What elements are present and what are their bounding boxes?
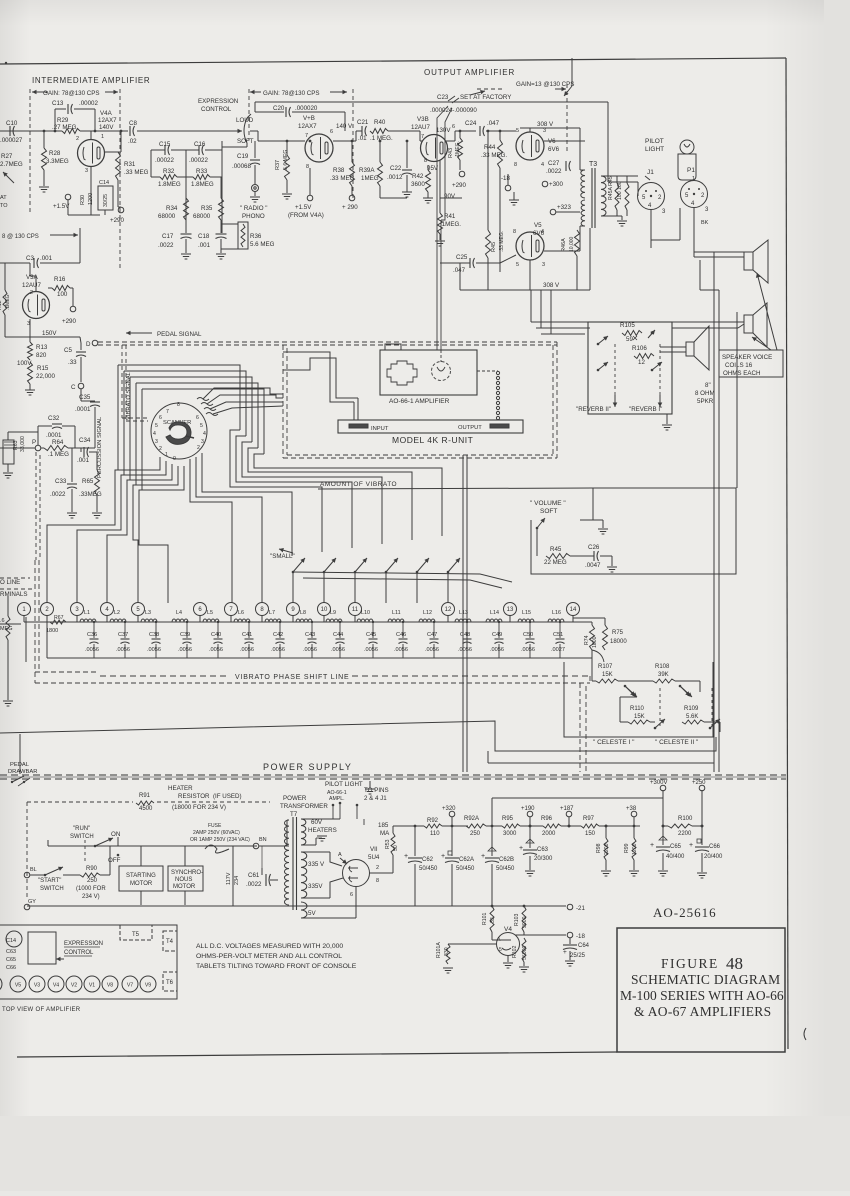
svg-text:12AU7: 12AU7 xyxy=(411,124,430,131)
svg-text:TOP VIEW OF AMPLIFIER: TOP VIEW OF AMPLIFIER xyxy=(2,1007,81,1013)
svg-text:GAIN: 78@130 CPS: GAIN: 78@130 CPS xyxy=(263,90,320,97)
wire xyxy=(592,617,605,619)
wire xyxy=(573,617,592,619)
svg-text:.001: .001 xyxy=(77,457,90,464)
ground xyxy=(39,186,49,188)
svg-text:SOFT: SOFT xyxy=(237,138,254,145)
svg-text:C63: C63 xyxy=(6,949,16,955)
svg-text:L8: L8 xyxy=(300,610,306,616)
svg-text:C17: C17 xyxy=(162,233,174,240)
svg-text:1800: 1800 xyxy=(46,628,58,634)
svg-text:8": 8" xyxy=(705,382,711,389)
svg-text:8: 8 xyxy=(424,158,427,164)
svg-text:1: 1 xyxy=(101,134,104,140)
capacitor C66 xyxy=(701,826,703,845)
svg-text:NOUS: NOUS xyxy=(175,877,192,883)
svg-text:6: 6 xyxy=(196,415,199,421)
svg-text:POWER: POWER xyxy=(283,795,307,802)
svg-text:.0056: .0056 xyxy=(425,647,439,653)
wire xyxy=(561,825,581,827)
wire to pedal drawbar xyxy=(19,734,21,774)
svg-text:1200: 1200 xyxy=(88,193,94,205)
svg-text:R44: R44 xyxy=(484,144,496,151)
svg-text:R27: R27 xyxy=(1,153,13,160)
svg-text:C23: C23 xyxy=(437,94,449,101)
svg-text:(IF USED): (IF USED) xyxy=(213,793,242,800)
svg-text:250: 250 xyxy=(87,878,98,884)
capacitor C63 xyxy=(529,826,531,848)
svg-text:2.7MEG: 2.7MEG xyxy=(0,161,23,168)
wire celeste top xyxy=(592,650,604,662)
svg-text:VIBRATO SIGNAL: VIBRATO SIGNAL xyxy=(126,371,132,420)
svg-text:OR 1AMP 250V (234 VAC): OR 1AMP 250V (234 VAC) xyxy=(190,837,250,843)
svg-text:15K: 15K xyxy=(602,672,613,678)
svg-text:2: 2 xyxy=(30,290,33,296)
svg-text:C: C xyxy=(71,384,76,391)
svg-text:CONTROL: CONTROL xyxy=(201,106,232,113)
svg-text:C25: C25 xyxy=(456,254,468,261)
resistor R36 xyxy=(238,222,248,249)
wire xyxy=(43,131,45,148)
svg-text:308 V: 308 V xyxy=(543,282,560,289)
volume enclosure xyxy=(531,488,736,574)
svg-text:C8: C8 xyxy=(129,120,137,127)
wires input xyxy=(357,398,359,420)
svg-text:R102: R102 xyxy=(512,945,518,958)
capacitor C62B xyxy=(491,798,493,856)
svg-text:PERCUSSION SIGNAL: PERCUSSION SIGNAL xyxy=(97,416,103,478)
svg-text:3: 3 xyxy=(201,439,204,445)
wire right verticals lower xyxy=(713,575,715,772)
svg-text:308 V: 308 V xyxy=(537,121,554,128)
svg-text:(FROM V4A): (FROM V4A) xyxy=(288,212,324,219)
svg-text:R95: R95 xyxy=(502,816,514,822)
svg-text:& AO-67 AMPLIFIERS: & AO-67 AMPLIFIERS xyxy=(634,1004,771,1019)
svg-text:20/400: 20/400 xyxy=(704,854,723,860)
svg-text:MEG: MEG xyxy=(0,626,13,632)
scanner pickup coils xyxy=(197,398,209,401)
svg-text:-18: -18 xyxy=(501,175,511,182)
svg-text:12AX7: 12AX7 xyxy=(298,123,317,130)
svg-text:3: 3 xyxy=(155,439,158,445)
svg-text:V3B: V3B xyxy=(417,116,429,123)
ground below reverb xyxy=(666,414,668,424)
svg-text:R90: R90 xyxy=(86,866,98,872)
wires into reverb box xyxy=(531,321,598,323)
node D xyxy=(92,340,98,346)
scanner xyxy=(151,403,207,459)
wire plate V4A xyxy=(120,131,122,152)
resistors R45A R45 100 100 xyxy=(601,175,638,177)
wire to V6 grid xyxy=(486,130,516,132)
svg-text:150V: 150V xyxy=(42,330,57,337)
ground xyxy=(629,870,639,872)
svg-text:R13: R13 xyxy=(36,344,48,351)
svg-text:185: 185 xyxy=(378,822,389,829)
svg-text:C65: C65 xyxy=(670,844,682,850)
terminal GY xyxy=(24,904,30,910)
expression control square xyxy=(28,932,56,964)
svg-text:C3: C3 xyxy=(26,255,34,262)
celeste dashed actuators xyxy=(659,688,661,726)
ground xyxy=(3,700,13,702)
svg-text:8: 8 xyxy=(514,162,517,168)
svg-text:7: 7 xyxy=(305,133,308,139)
svg-text:AT: AT xyxy=(0,195,7,201)
svg-text:R35: R35 xyxy=(201,205,213,212)
main power wire xyxy=(48,845,257,847)
svg-text:.33 MEG: .33 MEG xyxy=(330,175,355,182)
svg-text:C10: C10 xyxy=(6,120,18,127)
svg-text:.33 MEG.: .33 MEG. xyxy=(481,152,507,159)
svg-text:C63: C63 xyxy=(537,847,549,853)
svg-text:ALL D.C. VOLTAGES MEASURED: ALL D.C. VOLTAGES MEASURED WITH 20,000 xyxy=(196,943,343,950)
svg-text:"SMALL": "SMALL" xyxy=(270,553,295,560)
svg-text:C20: C20 xyxy=(273,105,285,112)
starting motor box xyxy=(119,866,163,891)
svg-text:8: 8 xyxy=(306,164,309,170)
svg-text:6V6: 6V6 xyxy=(533,230,545,237)
svg-text:330: 330 xyxy=(444,947,450,956)
wire xyxy=(579,128,581,170)
svg-text:C66: C66 xyxy=(709,844,721,850)
svg-text:J1: J1 xyxy=(647,169,654,176)
svg-text:.00022: .00022 xyxy=(189,157,208,164)
svg-text:C19: C19 xyxy=(237,153,249,160)
svg-text:C62B: C62B xyxy=(499,857,514,863)
svg-text:R29: R29 xyxy=(57,117,69,124)
speaker 3 horn xyxy=(686,342,694,356)
node C xyxy=(78,383,84,389)
svg-text:1200: 1200 xyxy=(632,843,638,855)
wire verticals from output stage xyxy=(530,290,532,322)
svg-text:C24: C24 xyxy=(465,120,477,127)
svg-text:R109: R109 xyxy=(684,706,699,712)
svg-text:R63: R63 xyxy=(13,440,19,450)
svg-text:+290: +290 xyxy=(452,182,466,189)
amplifier strip box xyxy=(0,925,177,999)
svg-text:R45: R45 xyxy=(550,546,562,553)
resistor R75 xyxy=(603,625,608,650)
svg-text:(1000 FOR: (1000 FOR xyxy=(76,886,106,892)
svg-text:.0056: .0056 xyxy=(394,647,408,653)
svg-text:SPEAKER VOICE: SPEAKER VOICE xyxy=(722,354,772,361)
svg-text:.00022: .00022 xyxy=(155,157,174,164)
svg-text:2200: 2200 xyxy=(678,831,692,837)
ground near V6 xyxy=(513,192,515,200)
svg-text:"REVERB I": "REVERB I" xyxy=(629,406,662,413)
ground xyxy=(697,872,707,874)
ground xyxy=(181,253,191,255)
svg-text:L6: L6 xyxy=(238,610,244,616)
svg-text:R45: R45 xyxy=(491,242,497,252)
svg-text:.000027: .000027 xyxy=(0,137,23,144)
svg-text:TO PINS: TO PINS xyxy=(364,787,389,794)
svg-text:R33: R33 xyxy=(196,168,208,175)
wire vertical to bus 2 xyxy=(466,592,468,772)
resistor R99 xyxy=(633,826,635,838)
wire stairs to switches xyxy=(190,459,232,603)
switch reverb b xyxy=(597,369,600,372)
wire grid V5 xyxy=(476,262,500,264)
svg-text:" RADIO ": " RADIO " xyxy=(240,205,267,212)
svg-text:OUTPUT: OUTPUT xyxy=(458,425,482,431)
svg-text:C41: C41 xyxy=(242,632,252,638)
wire xyxy=(118,206,121,208)
ground xyxy=(658,870,668,872)
left resistor fragment xyxy=(7,596,9,616)
svg-text:SWITCH: SWITCH xyxy=(70,834,94,840)
resistor R33 xyxy=(193,175,210,180)
svg-text:15K: 15K xyxy=(634,714,645,720)
capacitor C62 xyxy=(414,826,416,856)
wire celeste xyxy=(618,680,653,682)
wire plate V3B xyxy=(446,140,455,142)
svg-text:48: 48 xyxy=(726,954,743,973)
svg-text:PEDAL SIGNAL: PEDAL SIGNAL xyxy=(157,331,202,338)
svg-text:3: 3 xyxy=(543,128,546,134)
wire long output run xyxy=(0,721,716,751)
svg-text:40/400: 40/400 xyxy=(666,854,685,860)
svg-text:R103: R103 xyxy=(514,913,520,926)
svg-text:ON: ON xyxy=(111,831,120,838)
svg-text:L5: L5 xyxy=(207,610,213,616)
svg-text:MODEL 4K R-UNIT: MODEL 4K R-UNIT xyxy=(392,435,473,445)
resistor R37 xyxy=(286,141,288,155)
transformer T4 box xyxy=(163,931,177,951)
svg-text:+300: +300 xyxy=(549,181,563,188)
frame tick xyxy=(5,62,7,64)
celeste enclosure xyxy=(564,662,713,737)
svg-text:V7: V7 xyxy=(127,983,133,989)
wire xyxy=(419,131,421,141)
svg-text:.0022: .0022 xyxy=(546,168,562,175)
svg-text:10,000: 10,000 xyxy=(569,236,575,252)
svg-text:117V: 117V xyxy=(226,872,232,885)
capacitor C14 strip xyxy=(6,931,22,947)
wire speaker feeds xyxy=(694,251,744,253)
svg-text:+290: +290 xyxy=(62,318,76,325)
svg-text:L16: L16 xyxy=(552,610,561,616)
svg-text:SYNCHRO-: SYNCHRO- xyxy=(171,870,203,876)
svg-text:6: 6 xyxy=(350,892,353,898)
svg-text:" CELESTE I ": " CELESTE I " xyxy=(593,739,635,746)
svg-text:PEDAL: PEDAL xyxy=(10,762,30,768)
ground xyxy=(25,389,35,391)
svg-text:OHMS EACH: OHMS EACH xyxy=(723,370,760,377)
wire nest under scanner xyxy=(118,430,160,470)
svg-text:90V: 90V xyxy=(444,193,456,200)
vibrato line main wire xyxy=(24,621,592,623)
svg-text:RESISTOR: RESISTOR xyxy=(178,793,210,800)
wire xyxy=(388,130,420,132)
svg-text:8 @ 130 CPS: 8 @ 130 CPS xyxy=(2,234,39,240)
svg-text:.0027: .0027 xyxy=(551,647,565,653)
svg-text:R34: R34 xyxy=(166,205,178,212)
wire xyxy=(344,112,346,131)
svg-text:SCHEMATIC DIAGRAM: SCHEMATIC DIAGRAM xyxy=(631,972,781,987)
cathode network V4A xyxy=(90,167,92,215)
power bus dashed xyxy=(0,774,786,776)
wire xyxy=(286,820,288,846)
svg-text:.0056: .0056 xyxy=(116,647,130,653)
svg-text:L7: L7 xyxy=(269,610,275,616)
svg-text:.0056: .0056 xyxy=(271,647,285,653)
AO-66-1 amplifier box xyxy=(380,350,477,395)
wire xyxy=(442,825,468,827)
svg-text:5U4: 5U4 xyxy=(368,854,380,861)
svg-text:L1: L1 xyxy=(84,610,90,616)
svg-text:100V: 100V xyxy=(17,360,32,367)
svg-text:.000024-.000090: .000024-.000090 xyxy=(430,107,477,114)
svg-text:.001: .001 xyxy=(40,255,53,262)
svg-text:C39: C39 xyxy=(180,632,190,638)
svg-text:110: 110 xyxy=(430,831,440,837)
svg-text:R53: R53 xyxy=(385,839,391,849)
svg-text:R108: R108 xyxy=(655,664,670,670)
ground xyxy=(216,253,226,255)
svg-text:C27: C27 xyxy=(548,160,560,167)
svg-text:INTERMEDIATE AMPLIFIER: INTERMEDIATE AMPLIFIER xyxy=(32,76,150,85)
capacitor C16 xyxy=(198,145,200,155)
svg-text:.0056: .0056 xyxy=(178,647,192,653)
svg-text:.0022: .0022 xyxy=(158,242,174,249)
svg-text:GAIN=13 @130 CPS: GAIN=13 @130 CPS xyxy=(516,81,574,88)
wire primary xyxy=(287,845,289,847)
wire xyxy=(287,819,289,821)
svg-text:L2: L2 xyxy=(114,610,120,616)
svg-text:EXPRESSION: EXPRESSION xyxy=(64,941,103,947)
svg-text:33: 33 xyxy=(490,917,496,923)
terminal +300 xyxy=(542,181,548,187)
resistor R101A xyxy=(448,943,497,945)
svg-text:P: P xyxy=(32,439,36,446)
svg-text:L14: L14 xyxy=(490,610,499,616)
svg-text:.0056: .0056 xyxy=(240,647,254,653)
svg-text:R42: R42 xyxy=(412,173,424,180)
svg-text:T4: T4 xyxy=(166,939,174,945)
svg-text:8: 8 xyxy=(376,878,379,884)
svg-text:.047: .047 xyxy=(453,267,466,274)
svg-text:V4: V4 xyxy=(504,926,512,933)
svg-text:9000: 9000 xyxy=(522,916,528,928)
svg-text:4500: 4500 xyxy=(139,806,153,812)
terminal RADIO PHONO xyxy=(252,185,259,192)
svg-text:HEATERS: HEATERS xyxy=(308,827,337,834)
vibrato signal dashed xyxy=(121,345,123,418)
terminal +190 xyxy=(527,811,533,817)
svg-text:.000020: .000020 xyxy=(295,105,318,112)
svg-text:R43: R43 xyxy=(448,148,454,158)
svg-text:R39A: R39A xyxy=(359,167,375,174)
wire xyxy=(43,170,45,186)
tube V3B xyxy=(421,135,448,162)
svg-text:R107: R107 xyxy=(598,664,613,670)
svg-text:R30: R30 xyxy=(80,195,86,205)
svg-text:+290: +290 xyxy=(110,217,124,224)
svg-text:.00068: .00068 xyxy=(232,163,251,170)
arrow to voice coils xyxy=(757,273,777,350)
terminal +320 xyxy=(449,811,455,817)
svg-text:+ 290: + 290 xyxy=(342,204,358,211)
svg-text:L11: L11 xyxy=(392,610,401,616)
svg-text:(18000 FOR 234 V): (18000 FOR 234 V) xyxy=(172,804,226,811)
svg-text:13: 13 xyxy=(507,607,514,613)
svg-text:.33: .33 xyxy=(68,359,77,366)
ground xyxy=(67,512,77,514)
terminal +290 V3A xyxy=(70,306,76,312)
wire xyxy=(420,140,422,142)
svg-text:+320: +320 xyxy=(442,806,456,812)
svg-text:PILOT: PILOT xyxy=(645,138,664,145)
svg-text:R32: R32 xyxy=(163,168,175,175)
svg-text:5.6 MEG: 5.6 MEG xyxy=(250,241,275,248)
svg-text:.001: .001 xyxy=(198,242,211,249)
svg-text:R110: R110 xyxy=(630,706,645,712)
svg-text:60V: 60V xyxy=(311,819,323,826)
tube socket row xyxy=(0,976,2,992)
svg-text:V5: V5 xyxy=(534,222,542,229)
svg-text:140V: 140V xyxy=(99,124,114,131)
svg-text:1.8MEG: 1.8MEG xyxy=(191,181,214,188)
capacitor C62A xyxy=(451,826,453,856)
svg-text:T7: T7 xyxy=(290,811,298,818)
svg-text:"RUN": "RUN" xyxy=(73,826,90,832)
svg-text:C22: C22 xyxy=(390,165,402,172)
svg-text:EXPRESSION: EXPRESSION xyxy=(198,98,238,105)
svg-text:+187: +187 xyxy=(560,806,574,812)
wire xyxy=(117,180,119,207)
svg-text:.0056: .0056 xyxy=(521,647,535,653)
dashed enclosure R-unit xyxy=(282,345,284,458)
wire grid V4A xyxy=(90,131,92,140)
svg-text:INPUT: INPUT xyxy=(371,426,389,432)
svg-text:+1.5V: +1.5V xyxy=(295,204,312,211)
capacitor C65 xyxy=(662,826,664,845)
svg-text:C43: C43 xyxy=(305,632,315,638)
terminal +323 xyxy=(550,209,556,215)
svg-text:C14: C14 xyxy=(99,180,109,186)
stray mark xyxy=(804,1028,806,1040)
wire xyxy=(580,169,585,171)
ground xyxy=(3,472,13,474)
svg-text:5: 5 xyxy=(200,423,203,429)
svg-text:.047: .047 xyxy=(487,120,500,127)
svg-text:.0001: .0001 xyxy=(46,432,62,439)
ground xyxy=(565,960,575,962)
svg-text:R36: R36 xyxy=(250,233,262,240)
svg-text:V3: V3 xyxy=(34,983,40,989)
svg-text:V8: V8 xyxy=(107,983,113,989)
wire cathode V3B xyxy=(439,160,441,213)
resistor R45 output xyxy=(486,230,491,258)
wire motors xyxy=(140,846,142,866)
svg-text:7: 7 xyxy=(166,409,169,415)
svg-text:PHONO: PHONO xyxy=(242,213,265,220)
switch bus diagonals xyxy=(293,572,512,582)
ground xyxy=(435,240,445,242)
svg-text:R65: R65 xyxy=(82,478,94,485)
svg-text:C33: C33 xyxy=(55,478,67,485)
reverb dashed actuators xyxy=(614,344,616,405)
svg-text:R64: R64 xyxy=(52,439,64,446)
svg-text:PILOT LIGHT: PILOT LIGHT xyxy=(325,781,363,788)
svg-text:SET AT FACTORY: SET AT FACTORY xyxy=(460,94,511,101)
svg-text:8: 8 xyxy=(177,402,180,408)
wire circle1 drop xyxy=(25,617,27,662)
svg-text:.33MEG: .33MEG xyxy=(79,491,102,498)
svg-text:2: 2 xyxy=(376,865,379,871)
